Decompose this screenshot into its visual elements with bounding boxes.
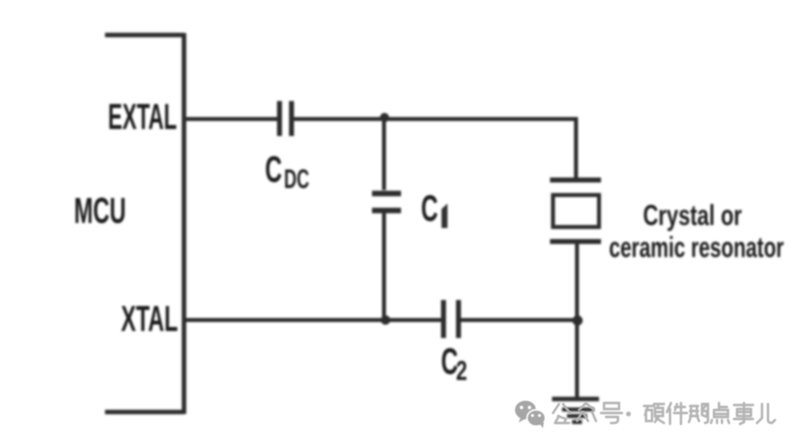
svg-text:ceramic resonator: ceramic resonator	[609, 231, 784, 264]
svg-text:XTAL: XTAL	[121, 300, 178, 340]
svg-text:MCU: MCU	[74, 192, 126, 231]
svg-text:2: 2	[456, 356, 467, 387]
svg-text:C: C	[265, 149, 282, 191]
svg-text:EXTAL: EXTAL	[108, 97, 177, 137]
svg-text:C: C	[421, 188, 438, 230]
svg-text:DC: DC	[284, 163, 309, 194]
svg-text:Crystal or: Crystal or	[643, 200, 742, 232]
